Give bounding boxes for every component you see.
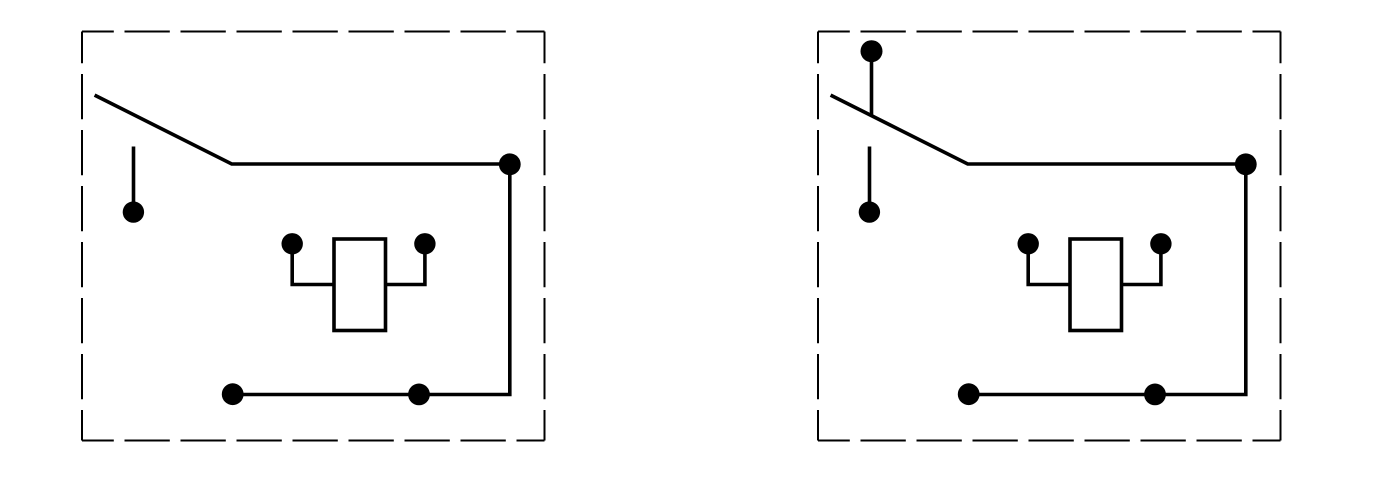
switch pole stub wire (right box) — [868, 147, 872, 209]
coil right terminal dot (left box) — [414, 233, 435, 254]
switch pole stub wire (left box) — [132, 147, 136, 209]
wire: right vertical + bottom run (right box) — [969, 164, 1246, 395]
terminal dot, bottom left (left box) — [222, 383, 244, 405]
switch blade S2 and wire to node B (right box) — [831, 95, 1246, 164]
enclosure dashed border (left relay box) top side — [82, 31, 545, 33]
terminal dot, bottom left (right box) — [958, 383, 980, 405]
coil left terminal dot (right box) — [1017, 233, 1038, 254]
enclosure dashed border (right relay box) top side — [818, 31, 1281, 33]
enclosure dashed border (left relay box) right side — [544, 32, 546, 441]
switch pole terminal dot (left box) — [123, 201, 144, 222]
relay coil K1 body (left box) — [334, 239, 386, 331]
node B junction dot (right box, top right) — [1235, 153, 1257, 175]
coil left terminal wire (left box) — [292, 248, 334, 285]
input drop wire from top dot to switch blade (right box) — [870, 52, 874, 116]
relay coil K2 body (right box) — [1070, 239, 1122, 331]
enclosure dashed border (right relay box) right side — [1280, 32, 1282, 441]
coil right terminal wire (right box) — [1122, 248, 1161, 285]
input terminal dot, top (right box) — [861, 40, 883, 62]
enclosure dashed border (right relay box) bottom side — [818, 440, 1281, 442]
junction dot, bottom middle (right box) — [1144, 384, 1166, 406]
enclosure dashed border (left relay box) bottom side — [82, 440, 545, 442]
junction dot, bottom middle (left box) — [408, 384, 430, 406]
enclosure dashed border (left relay box) left side — [81, 32, 83, 441]
switch blade S1 and wire to node A (left box) — [95, 95, 510, 164]
coil right terminal wire (left box) — [386, 248, 425, 285]
coil right terminal dot (right box) — [1150, 233, 1171, 254]
wire: right vertical + bottom run (left box) — [233, 164, 510, 395]
node A junction dot (left box, top right) — [499, 153, 521, 175]
switch pole terminal dot (right box) — [859, 201, 880, 222]
enclosure dashed border (right relay box) left side — [817, 32, 819, 441]
coil left terminal dot (left box) — [282, 233, 303, 254]
coil left terminal wire (right box) — [1028, 248, 1070, 285]
